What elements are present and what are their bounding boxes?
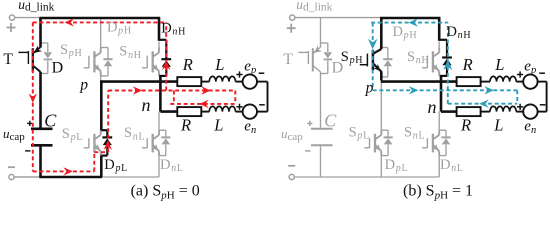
svg-text:T: T — [283, 51, 293, 68]
svg-text:T: T — [3, 51, 13, 68]
svg-text:ud_link: ud_link — [18, 0, 54, 14]
svg-text:L: L — [214, 55, 224, 74]
svg-text:R: R — [462, 55, 473, 74]
svg-text:p: p — [79, 76, 88, 93]
svg-text:L: L — [213, 116, 223, 135]
svg-text:n: n — [142, 95, 151, 115]
svg-text:C: C — [44, 111, 57, 131]
svg-text:p: p — [365, 80, 374, 97]
svg-text:ud_link: ud_link — [296, 0, 332, 14]
svg-text:L: L — [494, 55, 504, 74]
svg-text:R: R — [460, 116, 471, 135]
svg-text:R: R — [180, 116, 191, 135]
svg-text:C: C — [324, 111, 337, 131]
svg-text:D: D — [52, 59, 64, 76]
svg-text:R: R — [182, 55, 193, 74]
svg-text:L: L — [493, 116, 503, 135]
svg-text:n: n — [428, 97, 437, 117]
